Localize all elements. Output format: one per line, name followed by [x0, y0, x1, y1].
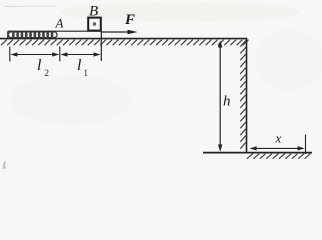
svg-text:l: l [37, 57, 42, 74]
svg-text:l: l [77, 57, 82, 74]
svg-text:x: x [275, 131, 282, 146]
svg-text:A: A [55, 16, 64, 31]
svg-text:2: 2 [45, 68, 50, 78]
svg-text:1: 1 [84, 68, 89, 78]
svg-text:F: F [124, 12, 135, 28]
svg-text:B: B [89, 4, 98, 20]
svg-text:h: h [223, 94, 231, 110]
